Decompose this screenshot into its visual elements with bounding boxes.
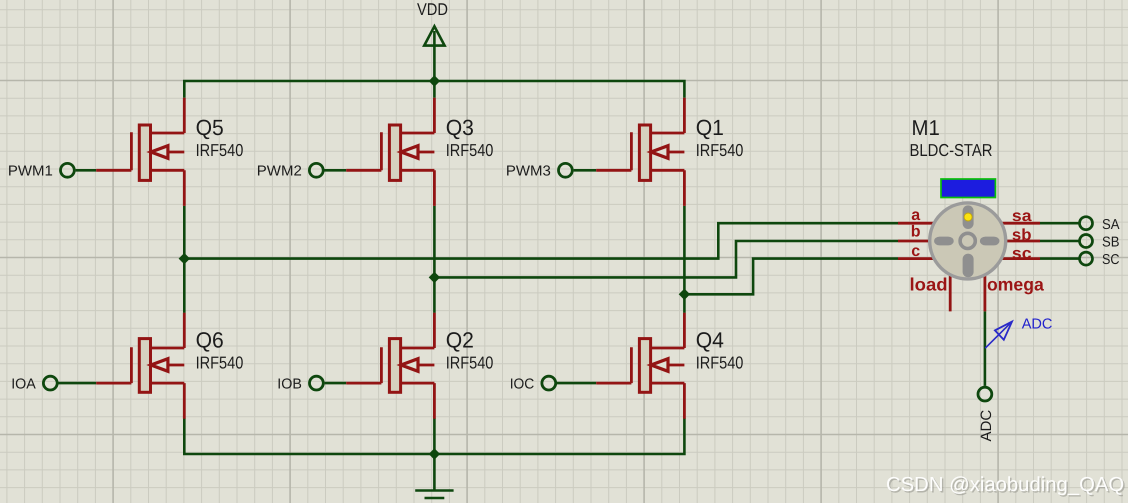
svg-text:IRF540: IRF540 [196,140,244,160]
svg-text:PWM2: PWM2 [257,164,302,180]
svg-text:SA: SA [1102,217,1120,233]
svg-text:ADC: ADC [978,410,995,442]
svg-text:sb: sb [1012,227,1032,244]
svg-text:IRF540: IRF540 [196,352,244,372]
svg-text:IRF540: IRF540 [446,140,494,160]
svg-text:PWM1: PWM1 [8,164,53,180]
svg-text:SB: SB [1102,235,1120,251]
svg-text:IOC: IOC [510,376,535,392]
svg-text:Q5: Q5 [196,115,224,140]
svg-text:Q2: Q2 [446,328,474,353]
svg-text:sc: sc [1012,246,1032,263]
svg-text:SC: SC [1102,252,1120,268]
svg-text:BLDC-STAR: BLDC-STAR [910,140,993,160]
svg-text:ADC: ADC [1022,316,1053,332]
svg-text:PWM3: PWM3 [506,164,551,180]
svg-text:CSDN @xiaobuding_QAQ: CSDN @xiaobuding_QAQ [886,474,1124,496]
svg-text:Q1: Q1 [696,115,724,140]
svg-text:omega: omega [987,274,1045,294]
svg-text:sa: sa [1012,208,1032,225]
svg-text:IOA: IOA [11,376,36,392]
svg-text:Q4: Q4 [696,328,724,353]
svg-text:IOB: IOB [277,376,302,392]
svg-text:load: load [910,274,948,294]
svg-text:a: a [911,207,920,224]
svg-text:M1: M1 [912,116,940,140]
svg-text:IRF540: IRF540 [696,140,744,160]
svg-text:Q6: Q6 [196,328,224,353]
svg-text:IRF540: IRF540 [696,352,744,372]
svg-text:VDD: VDD [417,0,448,19]
svg-text:Q3: Q3 [446,115,474,140]
svg-text:c: c [911,243,920,260]
svg-text:b: b [911,223,921,240]
svg-text:IRF540: IRF540 [446,352,494,372]
